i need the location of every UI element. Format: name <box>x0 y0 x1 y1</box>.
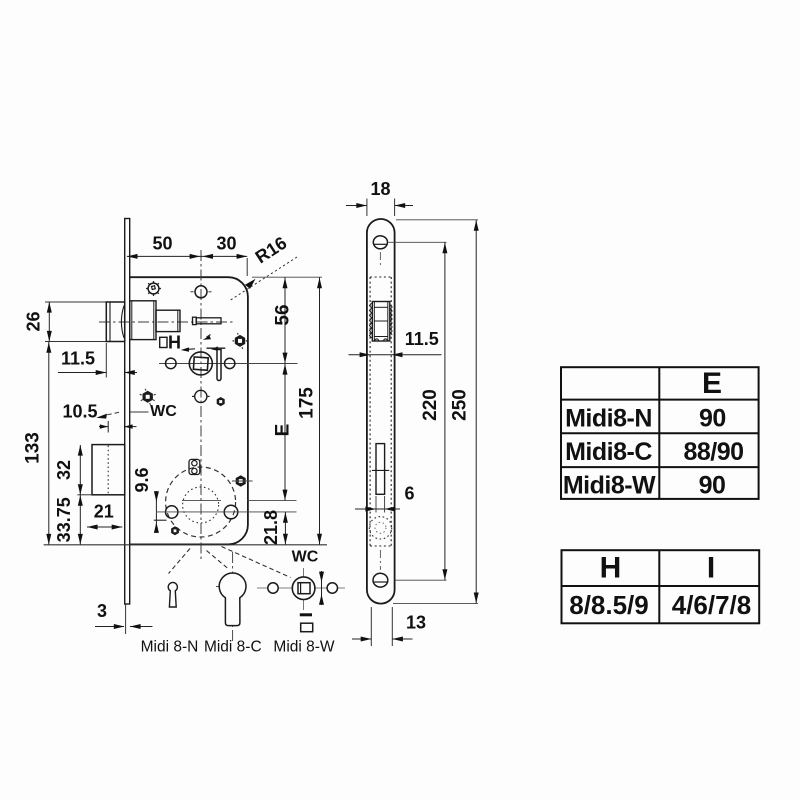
Midi 8-W square <box>298 583 310 594</box>
lever <box>217 350 221 381</box>
latch side view <box>372 302 390 342</box>
svg-text:133: 133 <box>23 432 44 464</box>
svg-text:8/8.5/9: 8/8.5/9 <box>569 590 649 620</box>
svg-text:E: E <box>702 367 722 400</box>
ext line for 30 <box>246 258 248 276</box>
dim 50/30 line <box>127 255 247 257</box>
faceplate <box>125 219 130 605</box>
leader to Midi 8-W <box>222 547 291 578</box>
svg-text:11.5: 11.5 <box>405 329 439 349</box>
Midi 8-W big circle <box>292 577 315 600</box>
rosette dashed circle <box>166 467 236 537</box>
table HI outer box <box>562 550 760 623</box>
svg-text:18: 18 <box>370 179 390 199</box>
Midi 8-W small square <box>301 623 313 632</box>
svg-text:Midi8-W: Midi8-W <box>563 472 656 500</box>
latch bolt head <box>106 302 124 342</box>
top-left screw <box>148 283 159 294</box>
top-center hole <box>195 286 207 298</box>
svg-text:WC: WC <box>150 403 177 420</box>
svg-text:Midi8-C: Midi8-C <box>565 438 652 466</box>
latch body <box>130 301 156 340</box>
body top ext line <box>252 276 322 278</box>
svg-text:33.75: 33.75 <box>54 497 74 542</box>
inner dashed case lines <box>369 277 371 546</box>
svg-text:13: 13 <box>406 613 426 633</box>
svg-text:220: 220 <box>420 389 441 421</box>
Midi 8-W centerlines <box>257 587 345 589</box>
leader to Midi 8-N <box>169 549 191 574</box>
WC leader dashes <box>104 412 119 415</box>
follower right hole <box>225 358 235 368</box>
svg-text:6: 6 <box>404 484 414 504</box>
svg-text:50: 50 <box>152 234 172 254</box>
svg-text:90: 90 <box>699 404 726 432</box>
rosette dotted circle <box>183 487 219 523</box>
hex screw E right edge <box>236 475 246 487</box>
side plate outline <box>367 219 395 604</box>
svg-text:26: 26 <box>24 311 44 331</box>
svg-text:21.8: 21.8 <box>261 510 281 545</box>
follower left hole <box>166 358 177 369</box>
dim 26 <box>48 302 50 342</box>
plate centerline dashes <box>379 252 381 268</box>
ext line latch left edge <box>105 343 107 378</box>
dim 56 <box>284 278 286 364</box>
deadbolt slot side view <box>376 444 385 495</box>
svg-text:56: 56 <box>273 304 294 325</box>
keyhole Midi 8-C centerlines <box>232 552 234 641</box>
deadbolt <box>92 445 125 495</box>
dim 220 <box>389 241 447 243</box>
svg-text:Midi 8-N: Midi 8-N <box>141 639 199 656</box>
follower <box>189 352 212 375</box>
rosette centerline <box>182 500 221 502</box>
svg-text:H: H <box>168 333 181 353</box>
screw hole below follower <box>195 390 207 402</box>
svg-text:4/6/7/8: 4/6/7/8 <box>672 590 752 620</box>
svg-text:Midi 8-W: Midi 8-W <box>273 639 335 656</box>
dim 26 ext lines <box>45 301 106 303</box>
screw tube clip <box>189 459 200 474</box>
top screw hole <box>373 236 387 249</box>
svg-text:I: I <box>707 551 715 584</box>
svg-text:Midi 8-C: Midi 8-C <box>204 639 262 656</box>
dim 10.5 ticks <box>99 426 108 428</box>
body bottom ext line <box>44 544 327 546</box>
follower square <box>193 357 208 370</box>
bottom screw hole <box>373 573 388 587</box>
lock body outline <box>130 277 248 544</box>
dim 32 <box>79 445 81 495</box>
svg-text:R16: R16 <box>252 233 291 268</box>
svg-text:88/90: 88/90 <box>683 438 743 466</box>
svg-text:WC: WC <box>292 549 319 566</box>
hex screw D <box>171 526 179 535</box>
svg-text:10.5: 10.5 <box>62 402 97 422</box>
svg-text:11.5: 11.5 <box>61 349 95 369</box>
hex screw A (below follower right) <box>217 397 225 406</box>
svg-text:250: 250 <box>450 389 471 421</box>
dim E <box>284 364 286 501</box>
H leader arrow <box>188 348 195 351</box>
spring dotted circle <box>369 517 391 539</box>
Midi 8-W H dim ticks <box>321 571 323 605</box>
H square symbol <box>160 337 167 347</box>
svg-text:175: 175 <box>297 387 318 419</box>
WC line <box>131 411 149 413</box>
vertical centerline <box>200 250 202 562</box>
small arrow under pin <box>207 335 211 338</box>
holes centerline <box>156 511 297 513</box>
hex screw B (top right) <box>233 333 248 349</box>
pin <box>193 317 197 324</box>
latch centerline <box>99 321 233 323</box>
latch tail <box>156 310 180 331</box>
keyhole Midi 8-C <box>219 573 246 626</box>
mounting hole left <box>166 506 178 518</box>
dim 13 <box>370 607 372 646</box>
dim 175 <box>319 278 321 545</box>
svg-text:E: E <box>273 424 294 437</box>
WC hex screw <box>140 389 156 405</box>
keyhole Midi 8-N <box>168 582 177 607</box>
svg-text:H: H <box>600 551 622 584</box>
mounting hole right <box>224 505 238 519</box>
table E outer box <box>561 367 759 499</box>
svg-text:Midi8-N: Midi8-N <box>565 404 652 432</box>
dim 133 <box>48 342 50 545</box>
Midi 8-W right circle <box>327 583 337 593</box>
Midi 8-W left circle <box>268 583 278 593</box>
follower centerline <box>159 363 298 365</box>
leader to Midi 8-C <box>207 551 229 570</box>
Midi 8-W thick dash <box>300 613 312 616</box>
dim 33.75 <box>79 495 81 545</box>
svg-text:30: 30 <box>216 234 236 254</box>
svg-text:21: 21 <box>94 502 114 522</box>
svg-text:90: 90 <box>699 472 726 500</box>
svg-text:32: 32 <box>54 460 74 480</box>
dim 21.8 <box>284 512 286 545</box>
R16 leader <box>229 257 297 301</box>
svg-text:3: 3 <box>97 601 107 621</box>
svg-text:9.6: 9.6 <box>132 467 152 492</box>
faceplate lower extension line <box>125 604 127 634</box>
dim 250 <box>396 219 478 221</box>
